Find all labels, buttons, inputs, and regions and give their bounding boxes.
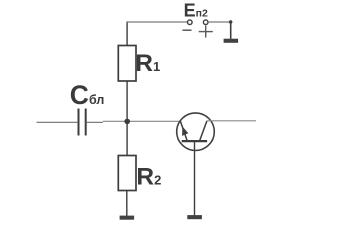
terminal minus circle: [188, 20, 193, 25]
wire top horizontal to supply terminal: [127, 21, 188, 23]
plus sign: [205, 26, 207, 38]
wire plus terminal to ground node: [208, 21, 231, 23]
wire collector to right: [207, 120, 256, 122]
wire junction up to R1: [126, 81, 128, 121]
wire R2 bottom lead: [126, 191, 128, 216]
transistor emitter arrow: [182, 126, 188, 135]
node junction dot: [124, 119, 130, 125]
wire jog to transistor: [103, 120, 180, 122]
wire R1 top lead: [126, 21, 128, 45]
capacitor Cбл left plate: [78, 109, 80, 136]
wire base stem down: [194, 141, 196, 216]
svg-text:Eп2: Eп2: [184, 1, 208, 21]
ground top right: [224, 39, 239, 43]
ground below transistor: [187, 215, 202, 219]
transistor collector diagonal: [200, 121, 207, 141]
capacitor Cбл right plate: [85, 109, 87, 136]
node dot at top ground: [229, 20, 232, 23]
wire input left: [37, 121, 78, 123]
svg-text:R2: R2: [136, 163, 161, 190]
resistor R1: [118, 46, 136, 82]
svg-text:R1: R1: [135, 50, 160, 77]
wire ground stem top right: [230, 22, 232, 39]
svg-text:Cбл: Cбл: [70, 80, 105, 110]
minus sign: [183, 29, 192, 31]
terminal plus circle: [203, 20, 208, 25]
transistor VT circle: [177, 113, 215, 151]
wire junction down to R2: [126, 121, 128, 155]
ground below R2: [120, 216, 135, 220]
wire capacitor to jog: [87, 121, 103, 123]
resistor R2: [118, 156, 136, 191]
transistor emitter diagonal: [180, 121, 187, 141]
transistor base bar: [182, 140, 207, 142]
